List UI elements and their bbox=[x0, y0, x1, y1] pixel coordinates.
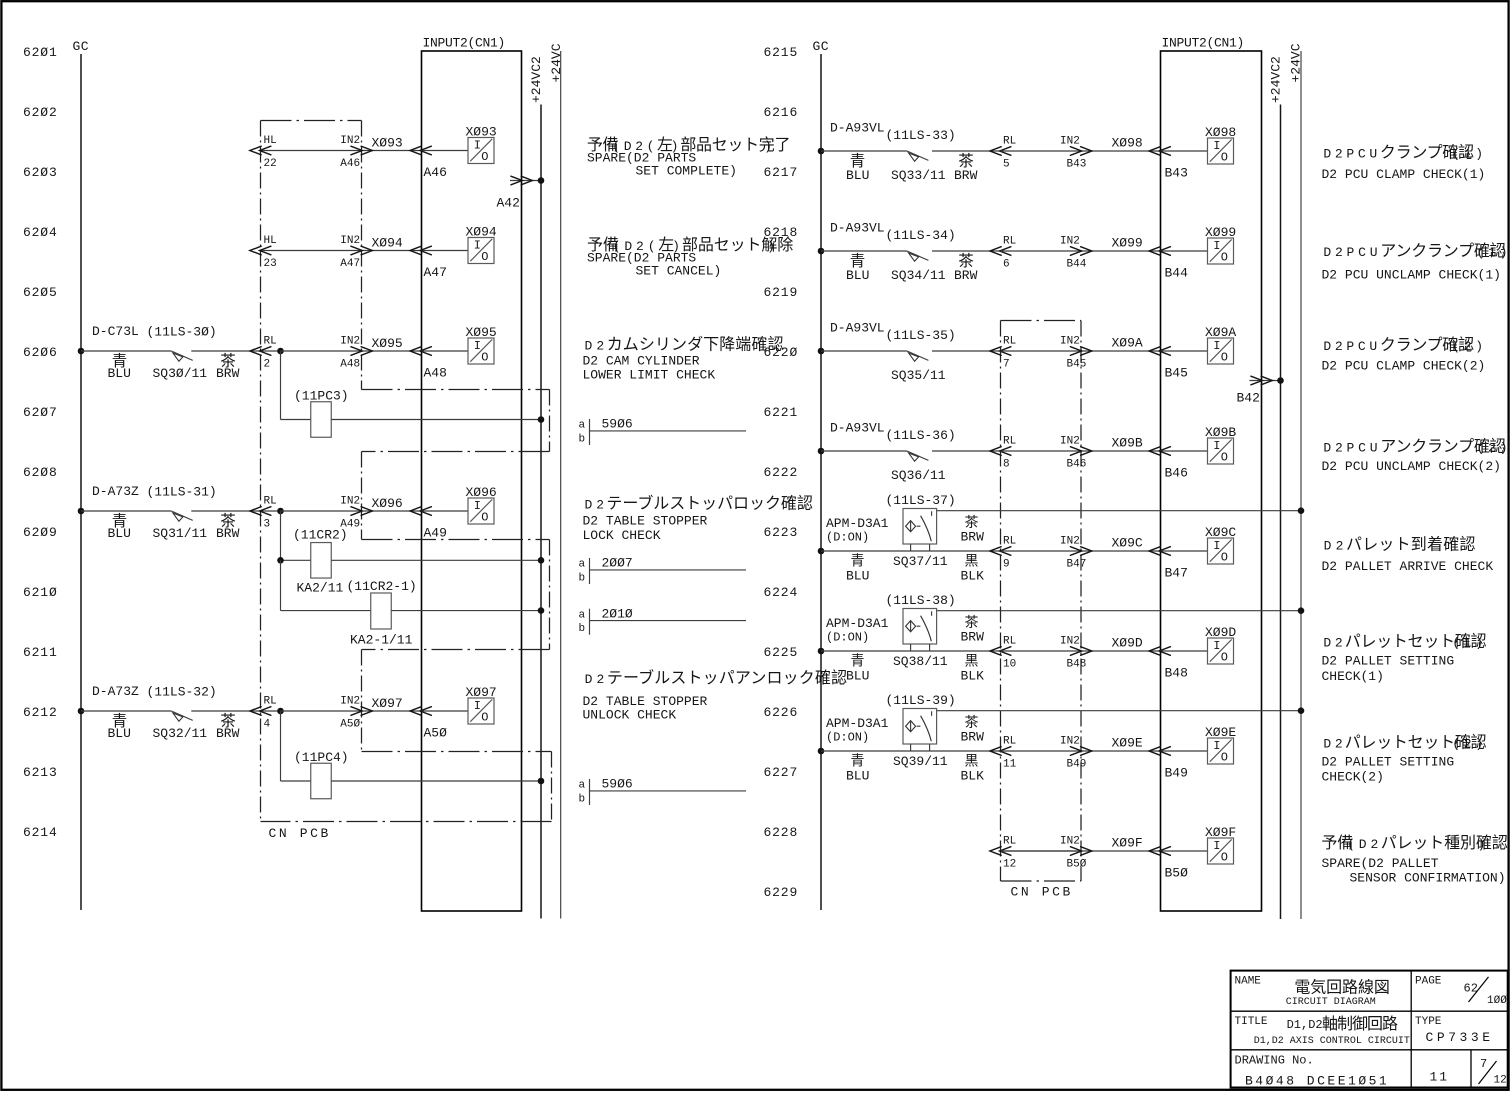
svg-text:IN2: IN2 bbox=[1060, 836, 1080, 848]
arrow into INPUT2 X09E bbox=[1149, 747, 1170, 756]
title block PAGE 62/100 bbox=[1415, 975, 1507, 1007]
wire colour labels BLU/BRW SQ32/11 bbox=[108, 712, 240, 741]
svg-text:D2 PALLET ARRIVE CHECK: D2 PALLET ARRIVE CHECK bbox=[1322, 559, 1494, 574]
svg-text:): ) bbox=[767, 239, 779, 254]
svg-text:XØ99: XØ99 bbox=[1205, 225, 1236, 240]
svg-text:APM-D3A1: APM-D3A1 bbox=[826, 616, 889, 631]
svg-text:青: 青 bbox=[851, 553, 865, 569]
pin label RL 6 bbox=[1003, 236, 1016, 271]
wire boundary to I/O X096 bbox=[281, 510, 469, 512]
arrow RL-12 boundary X09F bbox=[990, 847, 1011, 856]
arrow IN2-B43 boundary X098 bbox=[1070, 147, 1092, 156]
arrow into INPUT2 X097 bbox=[410, 707, 431, 716]
svg-text:IN2: IN2 bbox=[1060, 436, 1080, 448]
svg-text:O: O bbox=[481, 351, 488, 365]
svg-text:62Ø7: 62Ø7 bbox=[23, 405, 58, 420]
svg-text:(11LS-33): (11LS-33) bbox=[886, 128, 956, 143]
svg-text:B44: B44 bbox=[1067, 258, 1087, 270]
svg-text:(11LS-39): (11LS-39) bbox=[886, 693, 956, 708]
wire switch to boundary X099 bbox=[932, 250, 1000, 252]
svg-text:a: a bbox=[579, 609, 586, 621]
svg-text:SET CANCEL): SET CANCEL) bbox=[636, 264, 722, 279]
junction dot 11PC3 +24VC2 bbox=[538, 416, 545, 423]
svg-text:6212: 6212 bbox=[23, 705, 58, 720]
svg-text:CIRCUIT DIAGRAM: CIRCUIT DIAGRAM bbox=[1286, 997, 1376, 1008]
arrow RL-11 boundary X09E bbox=[990, 747, 1011, 756]
svg-text:(1): (1) bbox=[1452, 147, 1487, 162]
arrow RL-5 boundary X098 bbox=[990, 147, 1011, 156]
description X095 cam cylinder lower limit bbox=[583, 335, 784, 382]
svg-text:D1,D2: D1,D2 bbox=[1287, 1018, 1323, 1032]
pin label HL 23 bbox=[264, 235, 277, 270]
description X09D D2 pallet setting check 1 bbox=[1322, 633, 1487, 684]
pin label RL 11 bbox=[1003, 736, 1017, 771]
wire RL to IN2 X09D bbox=[1001, 650, 1082, 652]
svg-text:I: I bbox=[1213, 339, 1220, 353]
wire boundary to I/O X097 bbox=[281, 710, 469, 712]
arrow RL-10 boundary X09D bbox=[990, 647, 1011, 656]
svg-text:(11LS-31): (11LS-31) bbox=[147, 485, 217, 500]
arrow into INPUT2 X09A bbox=[1149, 347, 1170, 356]
svg-text:BLU: BLU bbox=[108, 526, 131, 541]
title block TITLE row bbox=[1235, 1015, 1410, 1047]
svg-text:黒: 黒 bbox=[965, 553, 979, 569]
wire RL to IN2 X09A bbox=[1001, 350, 1082, 352]
arrow IN2-B49 boundary X09E bbox=[1070, 747, 1092, 756]
junction dot GC row X097 bbox=[78, 708, 85, 715]
svg-text:青: 青 bbox=[851, 653, 865, 669]
svg-text:b: b bbox=[579, 623, 586, 635]
svg-text:XØ99: XØ99 bbox=[1112, 236, 1143, 251]
svg-text:TYPE: TYPE bbox=[1415, 1016, 1442, 1028]
arrow IN2-B48 boundary X09D bbox=[1070, 647, 1092, 656]
junction dot GC row X096 bbox=[78, 508, 85, 515]
off-page reference 5906 (11PC3 contact) bbox=[579, 417, 747, 446]
svg-text:4: 4 bbox=[264, 718, 271, 730]
relay coil 11CR2 bbox=[293, 528, 348, 579]
svg-text:LOWER LIMIT CHECK: LOWER LIMIT CHECK bbox=[583, 368, 716, 383]
wire GC to switch SQ36/11 bbox=[821, 450, 907, 452]
svg-text:b: b bbox=[579, 573, 586, 585]
svg-text:カムシリンダ下降端確認: カムシリンダ下降端確認 bbox=[607, 335, 784, 353]
svg-text:1ØØ: 1ØØ bbox=[1487, 995, 1507, 1007]
svg-text:XØ98: XØ98 bbox=[1112, 136, 1143, 151]
svg-text:I: I bbox=[1213, 839, 1220, 853]
junction dot GC row X09C bbox=[818, 548, 825, 555]
power rail +24VC (left) bbox=[549, 43, 564, 918]
svg-text:RL: RL bbox=[1003, 736, 1016, 748]
svg-text:O: O bbox=[1221, 151, 1228, 165]
svg-text:22: 22 bbox=[264, 158, 277, 170]
I/O module X096 bbox=[466, 485, 497, 525]
svg-text:BRW: BRW bbox=[216, 726, 240, 741]
arrow IN2-B46 boundary X09B bbox=[1070, 447, 1092, 456]
svg-text:BLK: BLK bbox=[961, 769, 985, 784]
pin label RL 10 bbox=[1003, 636, 1016, 671]
wire IN2 to I/O X098 bbox=[1081, 150, 1208, 152]
I/O module X095 bbox=[466, 325, 497, 365]
svg-text:11: 11 bbox=[1430, 1070, 1450, 1085]
svg-text:SQ33/11: SQ33/11 bbox=[891, 168, 946, 183]
bus GC (right) bbox=[813, 39, 830, 910]
svg-text:IN2: IN2 bbox=[340, 696, 360, 708]
wire GC to switch SQ31/11 bbox=[81, 510, 171, 512]
svg-text:O: O bbox=[1221, 851, 1228, 865]
arrow RL-7 boundary X09A bbox=[990, 347, 1011, 356]
wire colour labels SQ37/11 bbox=[846, 514, 984, 583]
svg-text:+24VC2: +24VC2 bbox=[1268, 56, 1283, 103]
svg-text:A5Ø: A5Ø bbox=[424, 725, 448, 740]
svg-text:B45: B45 bbox=[1165, 365, 1188, 380]
svg-text:A5Ø: A5Ø bbox=[340, 718, 360, 730]
junction dot B42 bbox=[1277, 377, 1284, 384]
svg-text:D-A93VL: D-A93VL bbox=[830, 221, 885, 236]
brown wire SQ39/11 to +24VC bbox=[937, 710, 1301, 712]
svg-text:A47: A47 bbox=[340, 258, 360, 270]
svg-text:6: 6 bbox=[1003, 258, 1010, 270]
svg-text:XØ96: XØ96 bbox=[466, 485, 497, 500]
svg-text:D2 PCU UNCLAMP CHECK(2): D2 PCU UNCLAMP CHECK(2) bbox=[1322, 459, 1501, 474]
svg-text:A48: A48 bbox=[340, 358, 360, 370]
tap A42 to +24VC2 bbox=[497, 176, 542, 210]
wire IN2 to I/O X09B bbox=[1081, 450, 1208, 452]
svg-text:RL: RL bbox=[1003, 536, 1016, 548]
wire IN2 to I/O X099 bbox=[1081, 250, 1208, 252]
svg-text:I: I bbox=[474, 499, 481, 513]
pin label IN2 B46 bbox=[1060, 436, 1086, 471]
svg-text:b: b bbox=[579, 794, 586, 806]
arrow IN2-B44 boundary X099 bbox=[1070, 247, 1092, 256]
svg-text:D2PCU: D2PCU bbox=[1323, 147, 1381, 162]
svg-text:XØ9B: XØ9B bbox=[1205, 425, 1236, 440]
svg-text:IN2: IN2 bbox=[1060, 636, 1080, 648]
svg-text:GC: GC bbox=[73, 39, 90, 54]
svg-text:(11CR2-1): (11CR2-1) bbox=[347, 579, 417, 594]
svg-text:A48: A48 bbox=[424, 365, 447, 380]
svg-text:I: I bbox=[1213, 139, 1220, 153]
label D-A93VL 11LS-35 bbox=[830, 321, 956, 344]
svg-text:2: 2 bbox=[264, 358, 271, 370]
svg-text:LOCK CHECK: LOCK CHECK bbox=[583, 528, 661, 543]
power rail +24VC (right) bbox=[1288, 43, 1303, 919]
svg-text:BLU: BLU bbox=[846, 268, 869, 283]
svg-text:D-A93VL: D-A93VL bbox=[830, 321, 885, 336]
svg-text:I: I bbox=[474, 699, 481, 713]
svg-text:BRW: BRW bbox=[954, 168, 978, 183]
CN PCB boundary (right cable box) bbox=[1001, 321, 1082, 882]
svg-text:6229: 6229 bbox=[764, 885, 799, 900]
arrow IN2-A48 boundary X095 bbox=[351, 347, 373, 356]
junction dot relay tap X095 bbox=[277, 348, 284, 355]
I/O module X097 bbox=[466, 685, 497, 725]
junction dot GC row X09A bbox=[818, 348, 825, 355]
wire switch to boundary X098 bbox=[932, 150, 1000, 152]
svg-text:NAME: NAME bbox=[1235, 975, 1262, 987]
arrow RL-2 boundary X095 bbox=[250, 347, 271, 356]
svg-text:3: 3 bbox=[264, 518, 271, 530]
svg-text:GC: GC bbox=[813, 39, 830, 54]
proximity sensor SQ39/11 (11LS-39) APM-D3A1 bbox=[903, 709, 937, 752]
svg-text:XØ9C: XØ9C bbox=[1112, 536, 1143, 551]
pin label RL 4 bbox=[264, 696, 277, 731]
junction dot GC row X09B bbox=[818, 448, 825, 455]
title block DRAWING No. bbox=[1235, 1054, 1390, 1089]
svg-text:DRAWING No.: DRAWING No. bbox=[1235, 1054, 1314, 1068]
svg-text:XØ9D: XØ9D bbox=[1205, 625, 1236, 640]
tap B42 to +24VC2 right bbox=[1237, 376, 1281, 405]
svg-text:D2: D2 bbox=[1323, 636, 1346, 651]
description X096 table stopper lock bbox=[583, 493, 813, 543]
svg-text:O: O bbox=[481, 711, 488, 725]
junction dot GC row X099 bbox=[818, 248, 825, 255]
svg-text:IN2: IN2 bbox=[1060, 536, 1080, 548]
svg-text:B46: B46 bbox=[1165, 465, 1188, 480]
junction dot A42 bbox=[538, 177, 545, 184]
arrow RL-3 boundary X096 bbox=[250, 507, 271, 516]
junction dot SQ37/11 brown +24VC bbox=[1298, 507, 1305, 514]
svg-text:12: 12 bbox=[1494, 1074, 1507, 1086]
arrow IN2-B47 boundary X09C bbox=[1070, 547, 1092, 556]
svg-text:2ØØ7: 2ØØ7 bbox=[602, 556, 633, 571]
svg-text:XØ93: XØ93 bbox=[372, 136, 403, 151]
svg-text:XØ9B: XØ9B bbox=[1112, 436, 1143, 451]
description X09F spare pallet sensor confirmation bbox=[1321, 834, 1507, 885]
svg-text:D2 PCU UNCLAMP CHECK(1): D2 PCU UNCLAMP CHECK(1) bbox=[1322, 267, 1501, 282]
arrow into INPUT2 X094 bbox=[410, 246, 431, 255]
svg-text:BRW: BRW bbox=[961, 729, 985, 744]
junction dot GC row X09D bbox=[818, 648, 825, 655]
svg-text:12: 12 bbox=[1003, 858, 1016, 870]
svg-text:I: I bbox=[474, 238, 481, 252]
off-page reference 2010 (KA2-1 contact) bbox=[579, 606, 747, 635]
svg-text:b: b bbox=[579, 434, 586, 446]
junction dot KA2-1/11 +24VC2 bbox=[538, 607, 545, 614]
junction dot GC row X098 bbox=[818, 148, 825, 155]
wire IN2 to I/O X09A bbox=[1081, 350, 1208, 352]
power rail +24VC2 (right) bbox=[1268, 56, 1283, 919]
svg-text:テーブルストッパロック確認: テーブルストッパロック確認 bbox=[606, 493, 812, 512]
svg-text:B47: B47 bbox=[1165, 565, 1188, 580]
I/O module X09D bbox=[1205, 625, 1236, 665]
wire boundary to I/O X095 bbox=[281, 350, 469, 352]
wire stem to relay KA2-1/11 bbox=[280, 560, 282, 610]
svg-text:XØ9A: XØ9A bbox=[1112, 336, 1143, 351]
svg-text:HL: HL bbox=[264, 135, 277, 147]
svg-text:6223: 6223 bbox=[764, 525, 799, 540]
svg-text:(11LS-3Ø): (11LS-3Ø) bbox=[147, 325, 217, 340]
svg-text:(2): (2) bbox=[1452, 339, 1487, 354]
svg-text:KA2/11: KA2/11 bbox=[297, 581, 344, 596]
arrow into INPUT2 X09D bbox=[1149, 647, 1170, 656]
off-page reference 2007 (11CR2 contact) bbox=[579, 556, 747, 585]
relay coil KA2-1/11 (11CR2-1) bbox=[347, 579, 417, 648]
svg-text:I: I bbox=[1213, 539, 1220, 553]
svg-text:I: I bbox=[1213, 639, 1220, 653]
wire colour labels BLU/BRW SQ3Ø/11 bbox=[108, 352, 240, 381]
svg-text:XØ98: XØ98 bbox=[1205, 125, 1236, 140]
I/O module X093 bbox=[466, 124, 497, 164]
svg-text:(D:ON): (D:ON) bbox=[826, 530, 869, 544]
label D-A93VL 11LS-34 bbox=[830, 221, 956, 244]
svg-text:O: O bbox=[1221, 751, 1228, 765]
svg-text:+24VC2: +24VC2 bbox=[529, 56, 544, 103]
svg-text:D2: D2 bbox=[1324, 539, 1348, 554]
svg-text:D2: D2 bbox=[585, 338, 609, 353]
svg-text:CHECK(1): CHECK(1) bbox=[1322, 669, 1384, 684]
svg-text:D-A93VL: D-A93VL bbox=[830, 421, 885, 436]
svg-text:SET COMPLETE): SET COMPLETE) bbox=[636, 164, 737, 179]
svg-text:XØ95: XØ95 bbox=[466, 325, 497, 340]
wire switch to boundary X097 bbox=[191, 710, 280, 712]
svg-text:62Ø6: 62Ø6 bbox=[23, 345, 58, 360]
svg-text:SQ35/11: SQ35/11 bbox=[891, 368, 946, 383]
svg-text:(D:ON): (D:ON) bbox=[826, 730, 869, 744]
pin label RL 9 bbox=[1003, 536, 1016, 571]
label D-A93VL 11LS-36 bbox=[830, 421, 956, 444]
svg-text:(2): (2) bbox=[1477, 441, 1512, 456]
svg-text:CP733E: CP733E bbox=[1426, 1030, 1494, 1045]
label D-C73L 11LS-3Ø bbox=[92, 324, 217, 340]
svg-text:D2PCU: D2PCU bbox=[1323, 441, 1381, 456]
svg-text:BLU: BLU bbox=[108, 366, 131, 381]
svg-text:XØ94: XØ94 bbox=[372, 236, 403, 251]
svg-text:D-A93VL: D-A93VL bbox=[830, 121, 885, 136]
wire stem to relay 11CR2 bbox=[280, 511, 282, 560]
junction dot SQ39/11 brown +24VC bbox=[1298, 707, 1305, 714]
svg-text:(11LS-36): (11LS-36) bbox=[886, 428, 956, 443]
svg-text:D-A73Z: D-A73Z bbox=[92, 684, 139, 699]
pin label IN2 A50 bbox=[340, 696, 360, 731]
brown wire SQ37/11 to +24VC bbox=[937, 510, 1301, 512]
wire 11PC3 to +24VC2 bbox=[331, 419, 541, 421]
svg-text:O: O bbox=[1221, 651, 1228, 665]
bus GC (left) bbox=[73, 39, 90, 910]
wire switch to boundary X09A bbox=[932, 350, 1000, 352]
pin label IN2 A47 bbox=[340, 235, 360, 270]
svg-text:B48: B48 bbox=[1067, 658, 1087, 670]
description X09E D2 pallet setting check 2 bbox=[1322, 733, 1487, 784]
wire colour labels BLU/BRW SQ31/11 bbox=[108, 512, 240, 541]
svg-text:BLU: BLU bbox=[846, 669, 869, 684]
wire stem to relay 11PC4 bbox=[280, 711, 282, 781]
svg-text:59Ø6: 59Ø6 bbox=[602, 417, 633, 432]
limit switch SQ32/11 (11LS-32) bbox=[171, 711, 192, 721]
svg-text:XØ94: XØ94 bbox=[466, 224, 497, 239]
pin label RL 7 bbox=[1003, 336, 1016, 371]
svg-text:XØ9E: XØ9E bbox=[1112, 736, 1143, 751]
svg-text:BLU: BLU bbox=[846, 569, 869, 584]
svg-text:10: 10 bbox=[1003, 658, 1016, 670]
svg-text:RL: RL bbox=[264, 496, 277, 508]
wire X094 row bbox=[261, 250, 469, 252]
wire IN2 to I/O X09D bbox=[1081, 650, 1208, 652]
svg-text:テーブルストッパアンロック確認: テーブルストッパアンロック確認 bbox=[607, 668, 847, 687]
CN PCB boundary (left cable box with relay pockets) bbox=[261, 121, 552, 822]
svg-text:青: 青 bbox=[851, 753, 865, 769]
arrow RL-6 boundary X099 bbox=[990, 247, 1011, 256]
svg-text:BLU: BLU bbox=[846, 769, 869, 784]
svg-text:SPARE(D2 PALLET: SPARE(D2 PALLET bbox=[1322, 856, 1439, 871]
svg-text:A49: A49 bbox=[424, 525, 447, 540]
wire RL to IN2 X099 bbox=[1001, 250, 1082, 252]
svg-text:SQ36/11: SQ36/11 bbox=[891, 468, 946, 483]
I/O module X09A bbox=[1205, 325, 1236, 365]
pin label IN2 B43 bbox=[1060, 136, 1086, 171]
description X09B D2 PCU unclamp check 2 bbox=[1322, 438, 1512, 474]
svg-text:(11LS-35): (11LS-35) bbox=[886, 328, 956, 343]
svg-text:APM-D3A1: APM-D3A1 bbox=[826, 516, 889, 531]
svg-text:RL: RL bbox=[1003, 336, 1016, 348]
limit switch SQ34/11 (11LS-34) bbox=[907, 251, 928, 261]
svg-text:D2PCU: D2PCU bbox=[1323, 339, 1381, 354]
wire RL to IN2 X09E bbox=[1001, 750, 1082, 752]
svg-text:): ) bbox=[1478, 837, 1490, 852]
junction dot GC row X09E bbox=[818, 748, 825, 755]
svg-text:11: 11 bbox=[1003, 758, 1017, 770]
wire colour labels SQ39/11 bbox=[846, 714, 984, 783]
svg-text:D2 PCU CLAMP CHECK(2): D2 PCU CLAMP CHECK(2) bbox=[1322, 359, 1486, 374]
svg-text:D2 PALLET SETTING: D2 PALLET SETTING bbox=[1322, 654, 1455, 669]
description X09C D2 pallet arrive check bbox=[1322, 536, 1494, 575]
wire stem to relay 11PC3 bbox=[280, 351, 282, 420]
svg-text:6216: 6216 bbox=[764, 105, 799, 120]
svg-text:621Ø: 621Ø bbox=[23, 585, 58, 600]
svg-text:IN2: IN2 bbox=[1060, 236, 1080, 248]
svg-text:茶: 茶 bbox=[965, 514, 979, 530]
svg-text:+24VC: +24VC bbox=[549, 43, 564, 82]
I/O module X09B bbox=[1205, 425, 1236, 465]
wire GC to switch SQ35/11 bbox=[821, 350, 907, 352]
label D-A73Z 11LS-31 bbox=[92, 484, 217, 500]
svg-text:B4Ø48 DCEE1Ø51: B4Ø48 DCEE1Ø51 bbox=[1245, 1073, 1389, 1088]
svg-text:D2 CAM CYLINDER: D2 CAM CYLINDER bbox=[583, 353, 700, 368]
pin label RL 5 bbox=[1003, 136, 1016, 171]
limit switch SQ35/11 (11LS-35) bbox=[907, 351, 928, 361]
arrow IN2-B50 boundary X09F bbox=[1070, 847, 1092, 856]
svg-text:KA2-1/11: KA2-1/11 bbox=[350, 633, 413, 648]
arrow into INPUT2 X099 bbox=[1149, 247, 1170, 256]
svg-text:5: 5 bbox=[1003, 158, 1010, 170]
svg-text:XØ93: XØ93 bbox=[466, 124, 497, 139]
svg-text:B5Ø: B5Ø bbox=[1165, 865, 1189, 880]
pin label IN2 B50 bbox=[1060, 836, 1087, 871]
wire 11CR2 to +24VC2 bbox=[331, 559, 541, 561]
svg-text:XØ96: XØ96 bbox=[372, 496, 403, 511]
arrow IN2-A49 boundary X096 bbox=[351, 507, 373, 516]
svg-text:O: O bbox=[481, 150, 488, 164]
svg-text:PAGE: PAGE bbox=[1415, 975, 1442, 987]
arrow into INPUT2 X09C bbox=[1149, 547, 1170, 556]
svg-text:RL: RL bbox=[264, 336, 277, 348]
arrow IN2-B45 boundary X09A bbox=[1070, 347, 1092, 356]
svg-text:HL: HL bbox=[264, 235, 277, 247]
svg-text:(11LS-38): (11LS-38) bbox=[886, 593, 956, 608]
junction dot GC row X095 bbox=[78, 348, 85, 355]
svg-text:A42: A42 bbox=[497, 195, 520, 210]
pin label IN2 A49 bbox=[340, 496, 360, 531]
proximity sensor SQ37/11 (11LS-37) APM-D3A1 bbox=[903, 509, 937, 552]
I/O module X099 bbox=[1205, 225, 1236, 265]
wire 11PC4 to +24VC2 bbox=[331, 780, 541, 782]
power rail +24VC2 (left) bbox=[529, 56, 544, 918]
svg-text:INPUT2(CN1): INPUT2(CN1) bbox=[1162, 36, 1245, 51]
svg-text:XØ9F: XØ9F bbox=[1112, 836, 1143, 851]
svg-text:B47: B47 bbox=[1067, 558, 1087, 570]
svg-text:BLK: BLK bbox=[961, 569, 985, 584]
title block TYPE CP733E bbox=[1415, 1016, 1494, 1045]
svg-text:XØ9A: XØ9A bbox=[1205, 325, 1236, 340]
arrow IN2-A50 boundary X097 bbox=[351, 707, 373, 716]
